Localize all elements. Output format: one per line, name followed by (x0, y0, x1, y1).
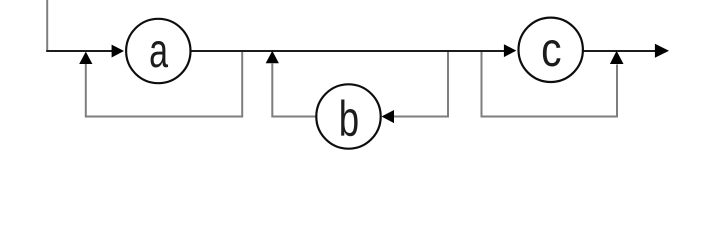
arrowhead at right end of main line (points right) (655, 44, 669, 58)
node C: up arrowhead of loop c into main line (610, 51, 624, 64)
wire: loop b left return (gray) (272, 64, 316, 117)
wire: loop b right drop (gray) (394, 52, 448, 117)
state circle b (316, 84, 380, 148)
wire: main line segment from circle a to circle c (190, 50, 510, 52)
wire: loop under c (gray) (482, 52, 618, 117)
wire: main line segment before circle a (46, 50, 118, 52)
arrowhead into circle b (points left) (382, 110, 395, 123)
svg-text:a: a (149, 23, 168, 77)
svg-text:b: b (339, 91, 359, 147)
wire: main line segment after circle c (583, 50, 656, 52)
arrowhead into circle c (points right) (504, 44, 516, 57)
node A: up arrowhead of loop a into main line (79, 52, 92, 64)
state circle c (519, 18, 583, 82)
wire: gray entry drop from top edge (46, 0, 48, 51)
wire: loop under a (gray) (86, 52, 242, 117)
node B: up arrowhead of loop b into main line (266, 51, 279, 64)
arrowhead into circle a (points right) (112, 45, 124, 58)
svg-text:c: c (541, 22, 561, 77)
state circle a (126, 19, 190, 83)
